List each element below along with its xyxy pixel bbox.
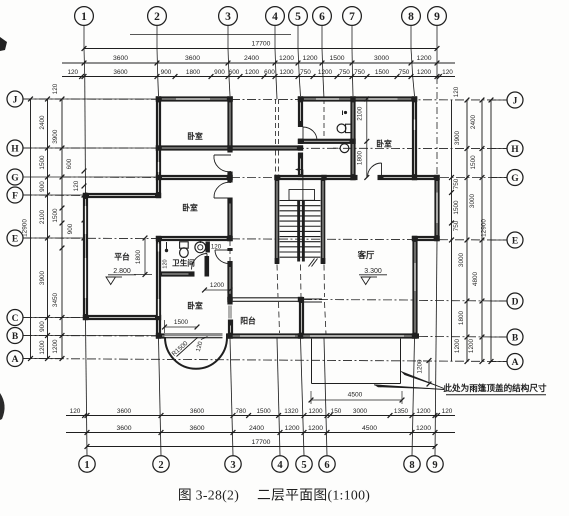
svg-text:平台: 平台 [114,252,130,262]
svg-text:1200: 1200 [302,55,317,62]
svg-text:H: H [11,144,19,154]
svg-text:1500: 1500 [470,155,477,170]
scan artifact top-left corner [0,37,7,51]
svg-text:3600: 3600 [190,408,205,415]
svg-text:600: 600 [66,158,73,169]
svg-text:1200: 1200 [416,408,431,415]
svg-text:8: 8 [408,11,414,23]
bottom axis bubbles [79,456,443,472]
svg-text:900: 900 [39,321,46,332]
svg-text:1200: 1200 [416,425,431,432]
svg-text:1500: 1500 [453,200,460,215]
svg-text:750: 750 [339,69,350,76]
svg-text:3: 3 [230,460,235,471]
svg-text:3000: 3000 [469,193,476,208]
svg-text:3600: 3600 [189,425,204,432]
svg-text:2.800: 2.800 [113,268,131,275]
right dimension columns [449,86,507,364]
svg-text:900: 900 [161,69,172,76]
svg-text:1200: 1200 [39,340,46,355]
svg-text:12900: 12900 [481,219,488,237]
svg-text:1200: 1200 [279,55,294,62]
svg-text:1800: 1800 [357,150,364,165]
svg-text:9: 9 [432,460,437,471]
svg-text:1200: 1200 [417,359,424,374]
svg-text:3900: 3900 [454,130,461,145]
left dimension columns [22,83,157,361]
svg-text:5: 5 [301,460,306,471]
svg-text:120: 120 [52,83,59,94]
svg-text:1800: 1800 [186,69,201,76]
svg-text:1800: 1800 [135,249,142,264]
svg-text:6: 6 [324,460,329,471]
svg-text:120: 120 [163,259,169,268]
svg-text:3000: 3000 [458,252,465,267]
svg-text:E: E [12,234,18,244]
svg-text:2100: 2100 [357,106,364,121]
svg-text:A: A [512,358,519,368]
svg-text:图 3-28(2) 二层平面图(1:100): 图 3-28(2) 二层平面图(1:100) [178,488,370,504]
svg-text:1200: 1200 [318,69,333,76]
svg-text:1200: 1200 [210,282,225,289]
top dimension rows [62,25,455,193]
svg-text:120: 120 [442,408,453,415]
R1500 radius + labels [171,337,208,358]
svg-text:600: 600 [229,69,240,76]
svg-text:120: 120 [67,69,78,76]
svg-text:8: 8 [409,460,414,471]
svg-text:1200: 1200 [284,425,299,432]
svg-text:750: 750 [300,69,311,76]
balcony door threshold wall3 [228,306,233,319]
svg-text:3600: 3600 [113,55,128,62]
svg-text:客厅: 客厅 [357,250,375,260]
svg-text:2400: 2400 [244,55,259,62]
svg-text:E: E [512,236,518,246]
svg-text:150: 150 [331,408,342,415]
svg-text:750: 750 [399,69,410,76]
svg-text:卧室: 卧室 [182,203,198,213]
svg-text:120: 120 [211,244,222,251]
svg-text:卧室: 卧室 [187,131,203,141]
svg-text:750: 750 [354,69,365,76]
svg-text:卧室: 卧室 [376,139,392,149]
svg-text:3000: 3000 [353,408,368,415]
top axis bubbles 1-9 [75,7,447,26]
svg-text:1500: 1500 [52,208,59,223]
svg-text:2400: 2400 [470,114,477,129]
svg-text:1200: 1200 [245,69,260,76]
canopy leader arrows [374,372,444,390]
svg-text:4: 4 [277,460,283,471]
svg-text:3900: 3900 [52,129,59,144]
vertical dashed axis segments [230,99,326,334]
svg-text:D: D [512,297,519,307]
svg-text:A: A [12,355,19,365]
svg-text:900: 900 [214,69,225,76]
svg-text:2400: 2400 [39,115,46,130]
svg-text:1500: 1500 [256,408,271,415]
svg-text:3000: 3000 [374,55,389,62]
svg-text:3: 3 [225,11,231,23]
svg-text:4500: 4500 [348,392,363,399]
svg-text:1: 1 [84,460,89,471]
svg-text:1320: 1320 [284,408,299,415]
svg-text:F: F [12,191,18,201]
svg-text:G: G [11,173,19,183]
svg-text:1: 1 [81,11,87,23]
svg-text:3600: 3600 [117,408,132,415]
svg-text:4: 4 [272,11,278,23]
svg-text:3450: 3450 [52,292,59,307]
balcony rail at D [233,298,322,302]
svg-text:17700: 17700 [252,41,271,48]
svg-text:此处为雨篷顶盖的结构尺寸: 此处为雨篷顶盖的结构尺寸 [443,382,547,393]
svg-text:卧室: 卧室 [187,301,203,311]
svg-text:3.300: 3.300 [364,268,382,275]
svg-text:1500: 1500 [375,69,390,76]
svg-text:J: J [513,96,518,106]
wall double-line cores [85,99,437,337]
svg-text:750: 750 [453,178,460,189]
svg-text:4800: 4800 [472,271,479,286]
svg-text:3600: 3600 [185,55,200,62]
wall junction piers [83,96,440,338]
svg-text:1200: 1200 [52,339,59,354]
svg-text:1500: 1500 [329,55,344,62]
level 2.800 platform [106,268,136,285]
svg-text:阳台: 阳台 [240,316,256,326]
svg-text:120: 120 [453,86,460,97]
svg-text:B: B [512,333,519,343]
window glazing lines [85,98,438,336]
svg-text:B: B [12,332,19,342]
svg-text:900: 900 [39,181,46,192]
svg-text:600: 600 [264,69,275,76]
svg-text:G: G [511,174,519,184]
svg-text:2: 2 [154,11,160,23]
svg-text:9: 9 [434,11,440,23]
door swings [192,127,382,270]
svg-text:120: 120 [73,180,80,191]
svg-text:1200: 1200 [416,55,431,62]
svg-text:1200: 1200 [417,69,432,76]
scan artifact bottom-left edge [0,393,5,420]
canopy annotation text [443,382,547,395]
svg-text:1200: 1200 [308,408,323,415]
level 3.300 living [359,268,387,285]
walls (poche) [83,96,440,338]
canopy outline [312,339,401,384]
bottom dimension rows [66,241,455,456]
svg-text:3900: 3900 [39,270,46,285]
svg-text:6: 6 [319,11,325,23]
bed3 balcony-door threshold [165,334,223,338]
svg-text:3600: 3600 [116,425,131,432]
svg-text:4500: 4500 [362,425,377,432]
svg-text:C: C [12,314,19,324]
svg-text:120: 120 [442,69,453,76]
svg-text:1500: 1500 [174,319,189,326]
svg-text:J: J [13,95,18,105]
svg-text:1200: 1200 [308,425,323,432]
svg-text:2400: 2400 [249,425,264,432]
svg-text:1200: 1200 [279,69,294,76]
svg-text:1500: 1500 [39,155,46,170]
plumbing fixtures [165,111,351,258]
svg-text:120: 120 [70,408,81,415]
svg-text:750: 750 [453,220,460,231]
svg-text:2100: 2100 [39,209,46,224]
svg-text:7: 7 [349,11,355,23]
svg-text:1800: 1800 [458,310,465,325]
in-plan dimensions [134,97,431,404]
svg-text:3600: 3600 [113,69,128,76]
svg-text:2: 2 [158,460,163,471]
left axis bubbles [7,91,23,367]
staircase [275,168,326,267]
horizontal centerlines [23,99,507,362]
svg-text:780: 780 [235,408,246,415]
svg-text:17700: 17700 [252,439,271,446]
R1500 semicircle [165,337,227,369]
svg-text:900: 900 [67,223,74,234]
svg-text:卫生间: 卫生间 [172,258,195,268]
svg-text:1350: 1350 [394,408,409,415]
svg-text:1200: 1200 [454,338,461,353]
svg-text:1200: 1200 [468,338,475,353]
right axis bubbles [507,92,523,370]
svg-text:H: H [511,145,519,155]
svg-text:5: 5 [295,11,301,23]
